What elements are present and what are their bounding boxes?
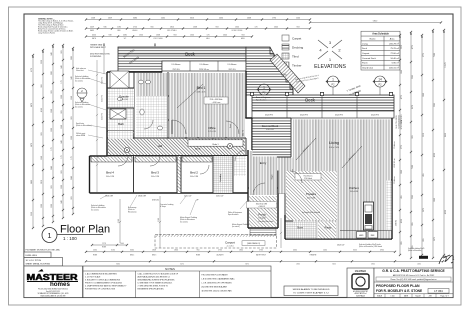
deck posts [250, 92, 253, 95]
svg-text:(918 LV): (918 LV) [152, 200, 159, 202]
svg-text:Porch: Porch [258, 213, 266, 217]
svg-text:Bed 2: Bed 2 [190, 171, 198, 175]
svg-text:Laundry: Laundry [219, 173, 222, 182]
svg-text:2735: 2735 [259, 250, 263, 252]
svg-text:865: 865 [401, 241, 403, 244]
svg-text:903: 903 [412, 135, 414, 138]
svg-text:1210 LV: 1210 LV [216, 196, 224, 198]
svg-text:Office: Office [208, 126, 216, 130]
svg-text:FILENAME: MOSELEY-STONE_08A: FILENAME: MOSELEY-STONE_08A [26, 249, 61, 252]
svg-text:2735: 2735 [218, 250, 222, 252]
svg-text:8650: 8650 [445, 133, 447, 137]
svg-text:4624 FG: 4624 FG [335, 115, 343, 117]
svg-text:4775: 4775 [412, 45, 414, 49]
elevations cross symbol [318, 40, 342, 59]
svg-text:Bed 3: Bed 3 [151, 171, 159, 175]
svg-text:2365: 2365 [434, 103, 436, 107]
svg-text:1368: 1368 [61, 125, 63, 129]
svg-text:170: 170 [61, 155, 63, 158]
svg-text:SHEET METAL ROOFING: SHEET METAL ROOFING [26, 262, 51, 265]
svg-text:903: 903 [174, 34, 177, 36]
window schedule row under deck [162, 61, 246, 71]
svg-text:ELEVATIONS: ELEVATIONS [314, 64, 346, 70]
svg-text:2278: 2278 [102, 243, 106, 245]
svg-text:F.G. Alumn: F.G. Alumn [200, 63, 209, 66]
svg-text:455: 455 [401, 195, 403, 198]
living extension below covered deck [253, 158, 292, 171]
svg-text:Robe 1: Robe 1 [212, 144, 218, 146]
svg-text:2. DO NOT SCALE: 2. DO NOT SCALE [85, 276, 101, 279]
svg-text:2121 FG: 2121 FG [102, 94, 104, 102]
svg-text:3675: 3675 [434, 237, 436, 241]
svg-text:4624 FG: 4624 FG [300, 115, 308, 117]
svg-text:ROBE: ROBE [196, 255, 200, 257]
svg-text:2640: 2640 [223, 34, 227, 36]
svg-text:DWELLING: DWELLING [26, 255, 38, 257]
porch steps [250, 228, 276, 236]
svg-text:3775: 3775 [401, 145, 403, 149]
svg-text:Lvng, Ktchen & Pantre: Lvng, Ktchen & Pantre [38, 32, 55, 35]
svg-text:4160: 4160 [41, 108, 43, 112]
svg-text:Fax (07) 4152 1521: Fax (07) 4152 1521 [46, 291, 60, 293]
deck right band [252, 95, 394, 111]
dimension chain top row 2 [85, 27, 311, 29]
svg-text:F.W. DENOTES FLOOR WASTE: F.W. DENOTES FLOOR WASTE [202, 274, 229, 277]
svg-text:Tiled: Tiled [292, 55, 299, 59]
svg-text:BED 4: BED 4 [130, 255, 135, 257]
deck right window labels row [252, 111, 394, 118]
svg-text:948: 948 [109, 34, 112, 36]
svg-text:4624 FG: 4624 FG [265, 115, 273, 117]
svg-text:3.00 x 3.280: 3.00 x 3.280 [106, 176, 114, 178]
store tiles [286, 222, 316, 239]
svg-text:JOB: JOB [428, 296, 431, 298]
svg-text:4230: 4230 [445, 210, 447, 214]
pantry diag [318, 222, 336, 239]
hall diagonal carpet [108, 139, 245, 155]
robe strips bedrooms [91, 157, 212, 163]
svg-text:1400: 1400 [323, 250, 327, 252]
svg-text:2081: 2081 [51, 71, 53, 75]
vertical dim drop at x120 [119, 199, 121, 243]
bed1 note box [204, 97, 228, 104]
svg-text:903: 903 [61, 50, 63, 53]
kitchen bench line [340, 230, 392, 232]
svg-text:1: 1 [332, 78, 334, 82]
svg-text:9470: 9470 [245, 264, 249, 266]
svg-text:1300: 1300 [51, 128, 53, 132]
svg-text:4775: 4775 [401, 95, 403, 99]
svg-text:4624 FG: 4624 FG [371, 115, 379, 117]
porch dim text band [247, 202, 277, 209]
svg-text:1060: 1060 [401, 170, 403, 174]
laundry tiles [214, 156, 233, 193]
svg-text:1200: 1200 [296, 17, 300, 19]
svg-text:SPECIFICATIONS: SPECIFICATIONS [400, 114, 403, 130]
svg-text:903: 903 [216, 26, 219, 28]
svg-text:Decking: Decking [292, 46, 303, 50]
svg-text:5470: 5470 [31, 143, 33, 147]
svg-text:1 : 100: 1 : 100 [63, 236, 77, 241]
svg-text:7. SHS DENOTES STEEL POSTS TO: 7. SHS DENOTES STEEL POSTS TO [138, 286, 169, 288]
svg-text:for extent): for extent) [75, 105, 83, 108]
svg-text:170: 170 [71, 156, 73, 159]
svg-text:903: 903 [242, 34, 245, 36]
kitchen island [364, 202, 374, 230]
bottom dimension chain row 1 [85, 251, 396, 253]
svg-text:960: 960 [41, 84, 43, 87]
svg-text:1:100: 1:100 [391, 296, 395, 298]
svg-text:⊗ DENOTES 1200mm CEILI: ⊗ DENOTES 1200mm CEILING FAN [202, 290, 233, 293]
svg-text:2640: 2640 [71, 176, 73, 180]
robe strip bed3-bed2 [178, 156, 181, 193]
svg-text:Hylght: Hylght [271, 174, 274, 179]
legend carpet swatch [282, 35, 289, 41]
linen tiles small [234, 156, 246, 176]
svg-text:2462: 2462 [161, 17, 165, 19]
notes table [83, 266, 271, 298]
svg-text:Area Schedule: Area Schedule [372, 33, 389, 36]
svg-text:above BWA: above BWA [76, 134, 86, 137]
svg-text:2621 FG: 2621 FG [229, 69, 237, 71]
svg-text:WIND/MANUFACTURERS SPECIFICATI: WIND/MANUFACTURERS SPECIFICATIONS. [138, 279, 176, 282]
svg-text:1790: 1790 [272, 17, 276, 19]
svg-text:7.18 x 2.80: 7.18 x 2.80 [258, 218, 266, 220]
svg-text:+ 4500 cass: + 4500 cass [212, 102, 221, 104]
svg-text:for extent): for extent) [75, 79, 83, 82]
svg-text:+6.1 x 8.0: +6.1 x 8.0 [226, 246, 233, 248]
svg-text:& Steps: & Steps [160, 205, 166, 208]
svg-text:8560: 8560 [116, 264, 120, 266]
svg-text:8570: 8570 [412, 105, 414, 109]
svg-text:Floor Plan: Floor Plan [60, 224, 110, 236]
interior vertical dim lines bottom [159, 196, 282, 248]
svg-text:Rsed floor &: Rsed floor & [304, 175, 314, 177]
svg-text:170: 170 [61, 80, 63, 83]
svg-text:F.G. Alumn: F.G. Alumn [172, 63, 181, 66]
svg-text:2121 FG: 2121 FG [102, 112, 104, 120]
svg-text:Ph (07) 4152 0901 MOBILE 040: Ph (07) 4152 0901 MOBILE 0407 582 612 [38, 289, 68, 291]
svg-text:903: 903 [51, 90, 53, 93]
svg-text:3600TG: 3600TG [396, 219, 398, 226]
interior vertical stub dims [103, 43, 156, 74]
title block bottom strip [374, 293, 453, 295]
svg-text:1368: 1368 [71, 96, 73, 100]
svg-text:170: 170 [207, 34, 210, 36]
svg-text:6170: 6170 [180, 264, 184, 266]
svg-text:1060: 1060 [434, 198, 436, 202]
fixtures [118, 80, 163, 130]
svg-text:Phone / Fax (07) 4152 9440 e: Phone / Fax (07) 4152 9440 email: prattd… [390, 278, 436, 281]
svg-text:2365: 2365 [412, 195, 414, 199]
living extension right of entry [279, 158, 293, 194]
svg-text:Area: Area [390, 37, 395, 40]
spa box [110, 71, 129, 88]
svg-text:903: 903 [61, 110, 63, 113]
smoke alarm circles [124, 143, 232, 152]
svg-text:903: 903 [41, 132, 43, 135]
svg-text:2365: 2365 [412, 75, 414, 79]
svg-text:Deck: Deck [185, 52, 195, 57]
legend timber swatch [282, 62, 289, 68]
svg-text:75.76 m²: 75.76 m² [390, 47, 399, 50]
elevation marker circles [257, 84, 271, 95]
svg-text:3.05 x 4.880: 3.05 x 4.880 [350, 191, 358, 193]
title block [374, 268, 453, 298]
svg-text:SMOKE ALARMS TO BE INSTALLED: SMOKE ALARMS TO BE INSTALLED [293, 288, 330, 291]
member box [347, 268, 374, 298]
svg-text:Carpet: Carpet [292, 37, 301, 41]
svg-text:903: 903 [71, 196, 73, 199]
svg-text:Specifications: Specifications [228, 213, 239, 216]
svg-text:for extent): for extent) [91, 208, 99, 211]
svg-text:HWS: HWS [359, 235, 364, 237]
svg-text:3055: 3055 [332, 264, 336, 266]
right dimension chains [399, 34, 401, 256]
svg-text:Pantry: Pantry [325, 227, 332, 230]
dimension chain top row 3 [85, 35, 253, 37]
svg-text:5. ALL CONSTRUCTION TO BUILDIN: 5. ALL CONSTRUCTION TO BUILDING CODE OF [138, 273, 180, 276]
svg-text:2810: 2810 [41, 180, 43, 184]
svg-text:L.O.H. DENOTES LIFT OFF HING: L.O.H. DENOTES LIFT OFF HINGES [202, 283, 233, 285]
svg-text:1806 OH: 1806 OH [138, 196, 147, 198]
solid black marker bar [419, 256, 428, 259]
svg-text:ROBE COFFEE: ROBE COFFEE [232, 30, 243, 32]
svg-text:Living: Living [329, 141, 338, 145]
deck steps edge [270, 47, 293, 95]
svg-text:2634 SD ws: 2634 SD ws [394, 158, 396, 167]
svg-text:865: 865 [423, 238, 425, 241]
svg-text:1180: 1180 [117, 26, 121, 28]
svg-text:Sep-08: Sep-08 [415, 296, 420, 298]
svg-text:4. DRAFTSPERSONS TAKE NO RESPO: 4. DRAFTSPERSONS TAKE NO RESPONSIBILITY [85, 285, 127, 288]
svg-text:4.50 x 4.880: 4.50 x 4.880 [307, 198, 315, 200]
svg-text:6170: 6170 [31, 68, 33, 72]
svg-text:3.05 x 2.60: 3.05 x 2.60 [120, 99, 128, 101]
svg-text:72.00 m²: 72.00 m² [390, 52, 399, 55]
svg-text:HOUSING INDUSTRY: HOUSING INDUSTRY [353, 291, 368, 293]
svg-text:4900: 4900 [380, 250, 384, 252]
house exterior walls [90, 71, 393, 239]
bath lower tiles [108, 131, 133, 145]
svg-text:for extent): for extent) [180, 220, 188, 223]
svg-text:MEMBER: MEMBER [355, 269, 367, 273]
svg-text:NOTES: NOTES [165, 267, 175, 271]
svg-text:14: 14 [378, 78, 382, 82]
svg-text:PROPOSED FLOOR PLAN: PROPOSED FLOOR PLAN [376, 284, 420, 288]
svg-text:Covered Deck: Covered Deck [262, 124, 279, 128]
svg-text:FG Above: FG Above [393, 176, 396, 184]
svg-text:2700 Head: 2700 Head [304, 178, 312, 180]
svg-text:Hall: Hall [158, 144, 163, 148]
svg-text:Living: Living [362, 43, 368, 45]
svg-text:Carport: Carport [362, 52, 370, 55]
svg-text:1300: 1300 [71, 136, 73, 140]
svg-text:1. ALL DIMENSIONS IN MILLIMETR: 1. ALL DIMENSIONS IN MILLIMETRES [85, 273, 117, 276]
svg-text:FOR METHOD OF CONSTRUCTION: FOR METHOD OF CONSTRUCTION [85, 289, 116, 291]
deck band separators [287, 95, 357, 111]
signature [439, 255, 454, 264]
svg-text:1508: 1508 [91, 17, 95, 19]
svg-text:2.72 x 2.30: 2.72 x 2.30 [208, 131, 216, 133]
svg-text:900: 900 [151, 26, 154, 28]
svg-text:3675: 3675 [423, 208, 425, 212]
svg-text:F.G. Alumn: F.G. Alumn [228, 63, 237, 66]
svg-text:405.31 m²: 405.31 m² [389, 67, 399, 70]
svg-text:3130: 3130 [111, 250, 115, 252]
dimension chain top row 1 [85, 18, 311, 20]
svg-text:205.78 m²: 205.78 m² [389, 42, 399, 45]
svg-text:2459: 2459 [90, 26, 94, 28]
svg-text:2521 FG: 2521 FG [173, 69, 181, 71]
svg-text:2150: 2150 [118, 219, 120, 223]
svg-text:1060: 1060 [423, 93, 425, 97]
svg-text:9470: 9470 [31, 103, 33, 107]
svg-text:903: 903 [51, 185, 53, 188]
svg-text:2002 FG: 2002 FG [243, 129, 245, 136]
svg-text:1806: 1806 [174, 250, 178, 252]
svg-text:2668: 2668 [247, 17, 251, 19]
svg-text:4230: 4230 [434, 153, 436, 157]
svg-text:Desk: Desk [230, 124, 232, 128]
svg-text:2310: 2310 [401, 45, 403, 49]
deck corner block [246, 47, 293, 95]
living timber floor [293, 120, 391, 239]
floor plan title circle [42, 228, 57, 243]
theatre carpet [286, 171, 337, 220]
svg-text:7580: 7580 [434, 53, 436, 57]
svg-text:G.R. & C.A. PRATT DRAFTING SER: G.R. & C.A. PRATT DRAFTING SERVICE [382, 269, 445, 273]
svg-text:3055: 3055 [353, 250, 357, 252]
svg-text:1210 LV: 1210 LV [184, 196, 192, 198]
svg-text:2750: 2750 [133, 26, 137, 28]
smoke alarms box [284, 286, 338, 296]
svg-text:ROBE: ROBE [93, 255, 97, 257]
svg-text:ABN 58 879 166 345 Licence: ABN 58 879 166 345 Licence G. R. Pratt L… [393, 274, 434, 277]
svg-text:(Refer to Elevations): (Refer to Elevations) [76, 124, 92, 127]
ensuite tiles [108, 89, 134, 108]
svg-text:948: 948 [61, 200, 63, 203]
svg-text:2526 SD ws: 2526 SD ws [199, 69, 209, 71]
svg-text:(S) DENOTES SMOKE ALARM: (S) DENOTES SMOKE ALARM [202, 286, 228, 289]
svg-text:1300: 1300 [139, 34, 143, 36]
bed1 timber floor [169, 73, 245, 137]
svg-text:(SEE PAGE 3): (SEE PAGE 3) [247, 242, 260, 245]
svg-text:903: 903 [71, 116, 73, 119]
porch tiles [249, 196, 277, 227]
svg-text:10° & 10° PITCH: 10° & 10° PITCH [26, 260, 42, 262]
svg-text:16.40 m²: 16.40 m² [390, 57, 399, 60]
svg-text:170: 170 [255, 26, 258, 28]
svg-text:3080: 3080 [133, 17, 137, 19]
svg-text:948: 948 [61, 140, 63, 143]
svg-text:1: 1 [263, 86, 265, 90]
svg-text:AUSTRALIA, AS/NZS 4055 REGION: AUSTRALIA, AS/NZS 4055 REGION C2 [138, 276, 170, 279]
left wall dim line [96, 60, 98, 193]
small dim row right of title [91, 244, 128, 246]
svg-text:3. BUILDER TO CHECK ALL DIMENS: 3. BUILDER TO CHECK ALL DIMENSIONS [85, 279, 121, 282]
svg-text:FG Above: FG Above [393, 141, 396, 149]
svg-text:Glass feat: Glass feat [76, 69, 84, 72]
svg-text:2081: 2081 [123, 34, 127, 36]
svg-text:Bath: Bath [118, 122, 124, 126]
deck up ramp [270, 54, 305, 93]
svg-text:5.90 m²: 5.90 m² [392, 62, 400, 65]
theatre note boxes [295, 174, 321, 181]
svg-text:1000: 1000 [120, 243, 124, 245]
roof pitch box [24, 258, 63, 267]
bottom dimension chain row 2 [85, 260, 444, 262]
area schedule table [361, 31, 400, 70]
svg-text:7580: 7580 [412, 165, 414, 169]
carport dashed outline [155, 235, 277, 249]
svg-text:3.00 x 3.280: 3.00 x 3.280 [151, 176, 159, 178]
svg-text:2365: 2365 [296, 264, 300, 266]
interior walls [107, 72, 392, 239]
svg-text:Elevations): Elevations) [128, 210, 137, 213]
svg-text:Carport: Carport [225, 241, 235, 245]
svg-text:BED 3: BED 3 [152, 255, 157, 257]
svg-text:2810: 2810 [170, 26, 174, 28]
bed1 leader [177, 84, 203, 108]
svg-text:Concrete Slab steps: Concrete Slab steps [258, 220, 273, 223]
dwelling box [24, 252, 51, 258]
svg-text:948: 948 [61, 65, 63, 68]
svg-text:948: 948 [51, 52, 53, 55]
svg-text:2030: 2030 [93, 250, 97, 252]
svg-text:Covered Deck: Covered Deck [362, 57, 377, 60]
svg-text:Bed 4: Bed 4 [106, 171, 114, 175]
svg-text:2134 x 1080 Wdw: 2134 x 1080 Wdw [210, 99, 224, 101]
svg-text:FOR R. MOSELEY & E. STONE: FOR R. MOSELEY & E. STONE [376, 289, 422, 293]
svg-text:1620 LV: 1620 LV [337, 245, 345, 247]
svg-text:903: 903 [61, 170, 63, 173]
svg-text:1060: 1060 [401, 70, 403, 74]
svg-text:W.I.R.: W.I.R. [195, 149, 201, 151]
svg-text:Grand total: Grand total [362, 67, 373, 70]
svg-text:TO COMPLY WITH BCA PART 3.7.2: TO COMPLY WITH BCA PART 3.7.2 [293, 292, 329, 295]
carport zipper ticks [156, 234, 275, 237]
bath tiles [108, 109, 133, 130]
svg-text:1300: 1300 [235, 26, 239, 28]
wc tiles [136, 96, 167, 137]
svg-text:Deck: Deck [305, 98, 315, 103]
svg-text:1300: 1300 [190, 34, 194, 36]
svg-text:2150: 2150 [158, 218, 160, 222]
svg-text:L.B.W. DENOTES LOADBEARING W: L.B.W. DENOTES LOADBEARING WALL [202, 278, 235, 281]
svg-text:Store: Store [297, 227, 304, 230]
svg-text:Theatre: Theatre [306, 192, 317, 196]
svg-text:6. SEE PAGE 7 FOR TIMBER SCH: 6. SEE PAGE 7 FOR TIMBER SCHEDULE. [138, 282, 173, 285]
svg-text:1800: 1800 [239, 250, 243, 252]
svg-text:865: 865 [412, 222, 414, 225]
svg-text:homes: homes [50, 281, 71, 288]
svg-text:3604 LV & DRS: 3604 LV & DRS [256, 203, 267, 205]
svg-text:4230: 4230 [401, 219, 403, 223]
svg-text:9.80 x 7.420: 9.80 x 7.420 [329, 147, 339, 149]
svg-text:3.00 x 3.380: 3.00 x 3.380 [190, 176, 198, 178]
svg-text:3775: 3775 [423, 53, 425, 57]
svg-text:LT 364: LT 364 [434, 289, 443, 293]
svg-text:2640: 2640 [51, 166, 53, 170]
svg-text:Name: Name [370, 38, 377, 40]
svg-text:Page 2 of 7: Page 2 of 7 [440, 296, 448, 298]
svg-text:1368: 1368 [41, 156, 43, 160]
svg-text:4.08 x 4.05: 4.08 x 4.05 [266, 129, 274, 131]
hall corridor timber [136, 73, 167, 97]
svg-text:3616: 3616 [190, 17, 194, 19]
svg-text:2030: 2030 [417, 264, 421, 266]
